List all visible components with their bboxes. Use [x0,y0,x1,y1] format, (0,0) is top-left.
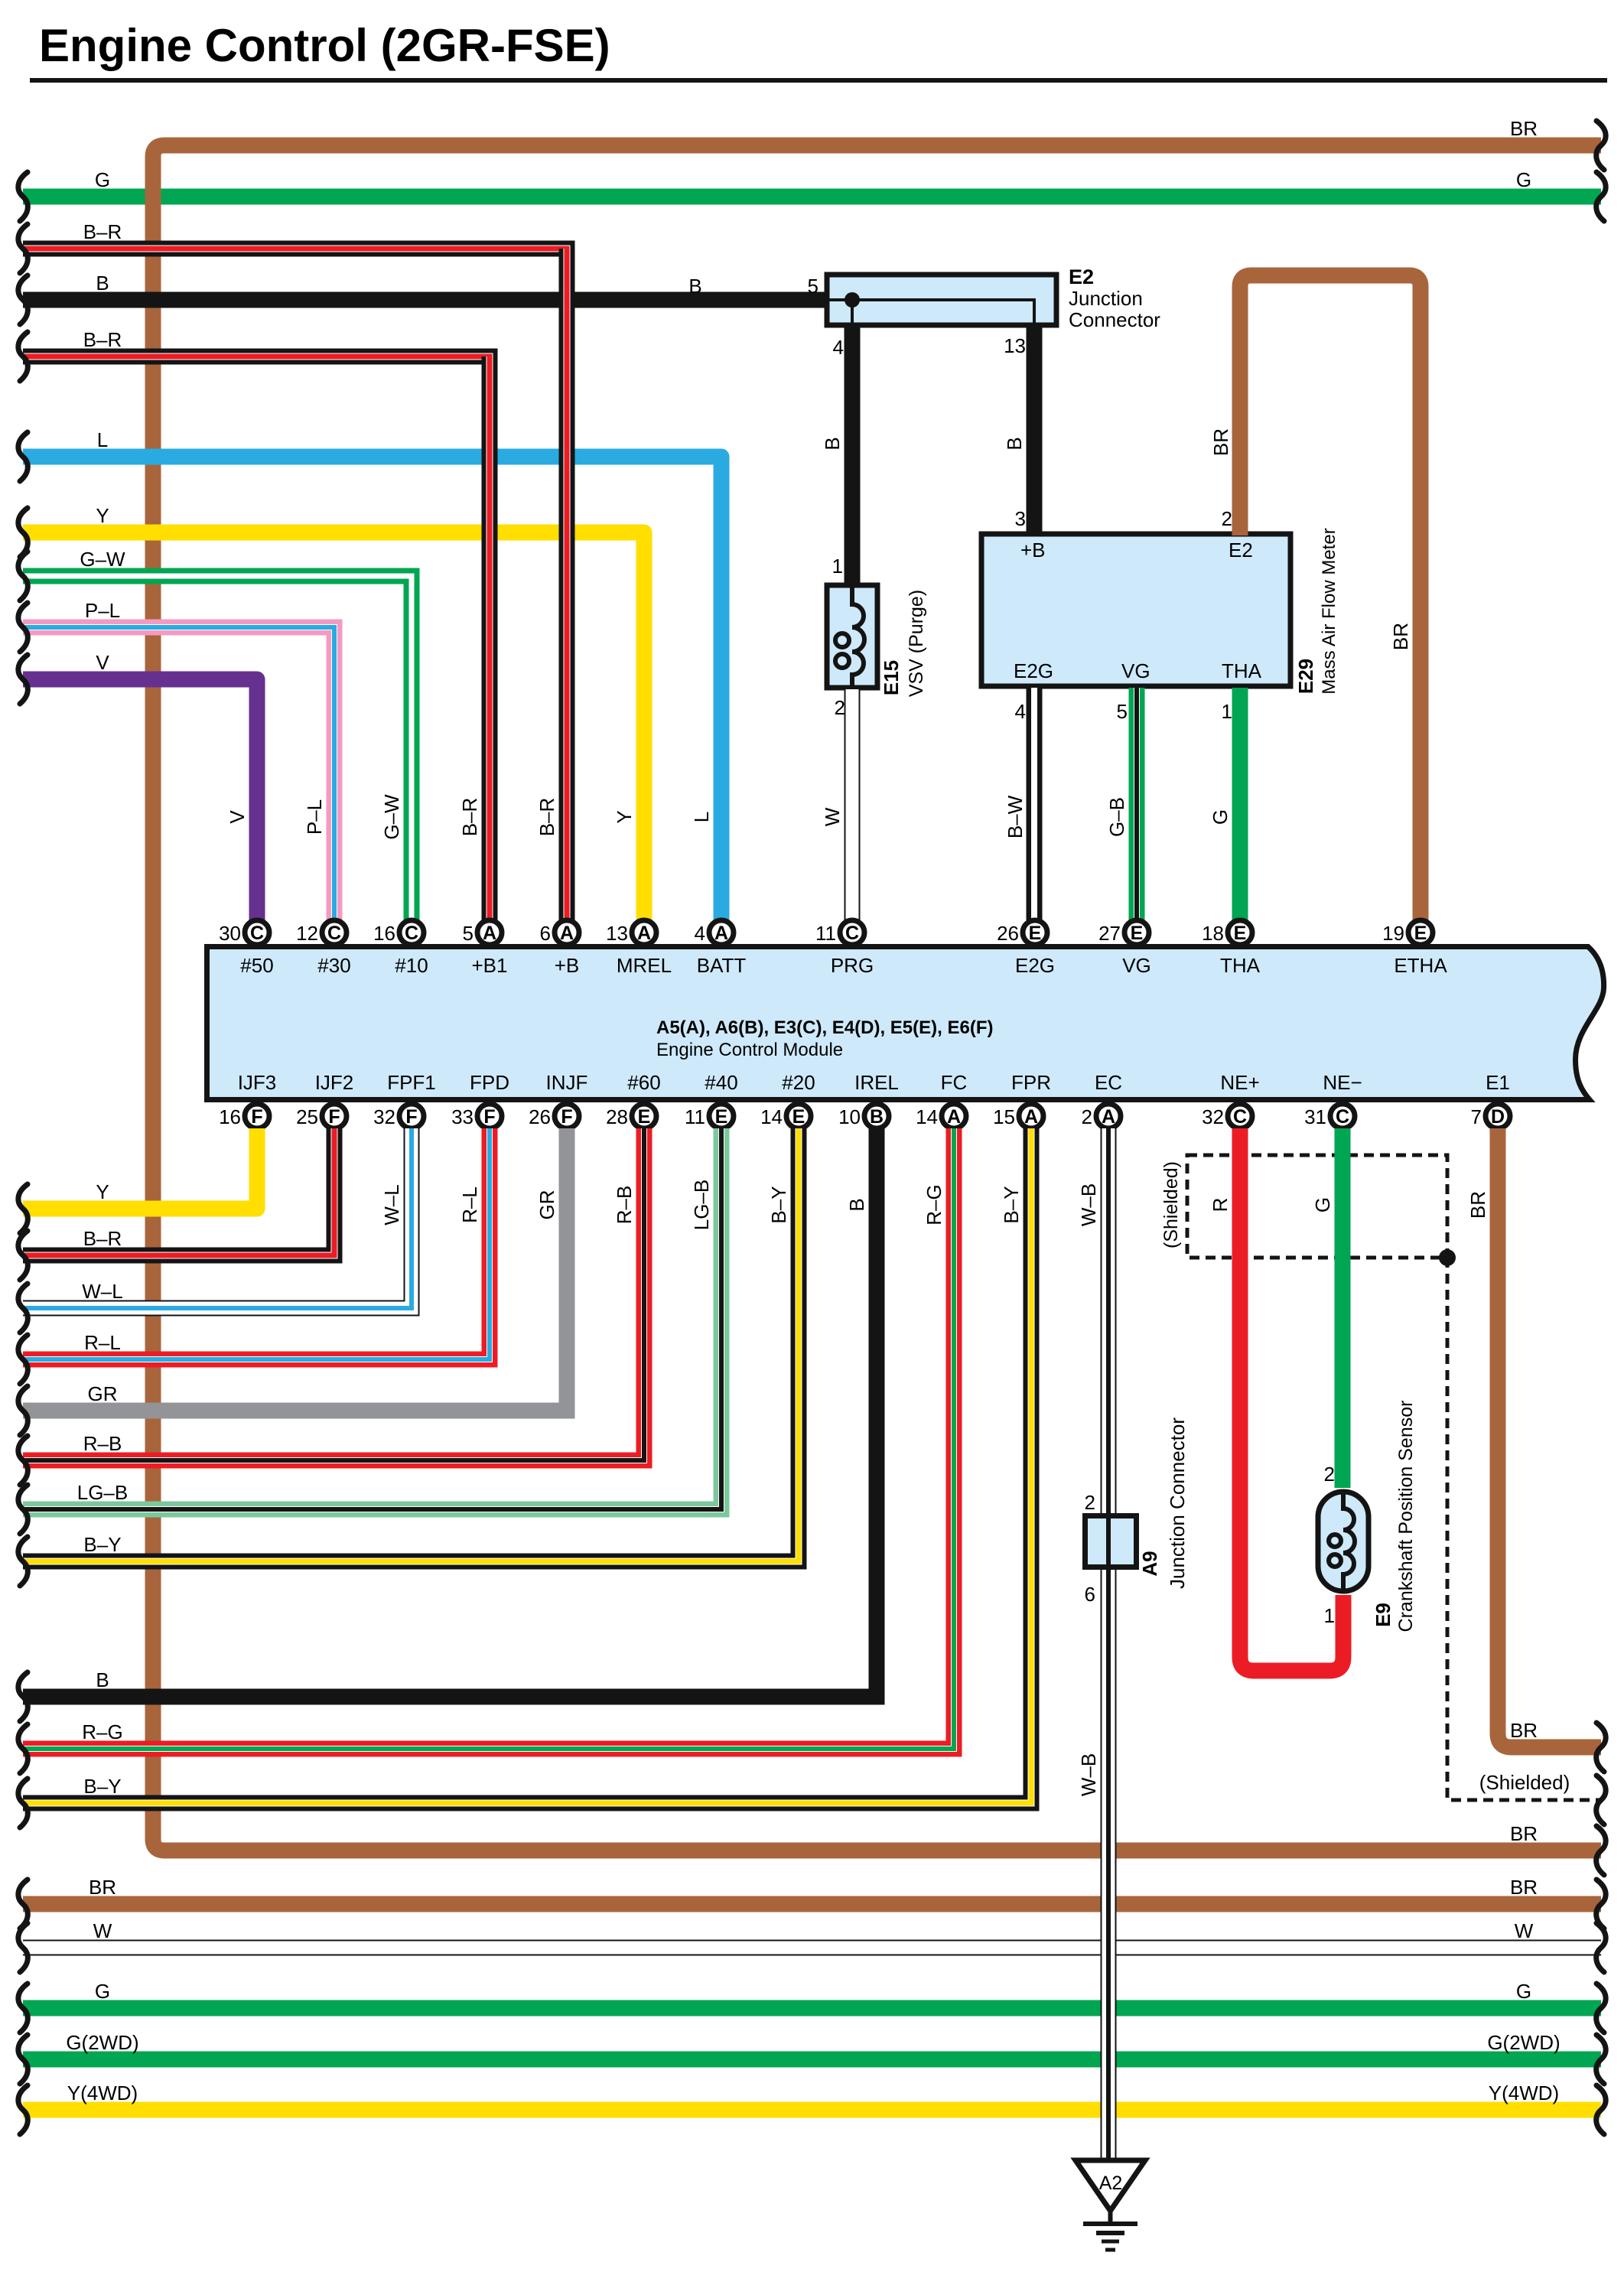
wire B-Y to ECM FPR [23,1128,1031,1803]
svg-text:2: 2 [1324,1463,1335,1486]
svg-text:B: B [96,1668,109,1691]
pin 33 F FPD (bottom) [451,1071,509,1128]
svg-text:E: E [1029,923,1042,944]
svg-text:NE−: NE− [1323,1071,1362,1094]
svg-text:V: V [226,810,249,824]
svg-text:BR: BR [1209,428,1232,456]
svg-text:V: V [96,651,109,674]
svg-text:G(2WD): G(2WD) [1487,2031,1560,2054]
shield junction dot [1439,1249,1456,1266]
svg-text:R: R [1209,1198,1232,1212]
svg-text:F: F [251,1106,262,1128]
svg-text:13: 13 [1004,334,1026,357]
svg-text:FPF1: FPF1 [387,1071,436,1094]
wire Y to ECM MREL [23,532,644,920]
svg-text:1: 1 [1324,1604,1335,1627]
wire B-R to ECM +B [23,249,567,920]
svg-text:11: 11 [815,922,836,945]
wire R-G to ECM FC [23,1128,954,1749]
svg-text:Y(4WD): Y(4WD) [1489,2082,1559,2104]
svg-text:Engine Control Module: Engine Control Module [656,1040,843,1060]
wire break braces left [18,172,28,2134]
svg-text:4: 4 [695,922,705,945]
svg-text:16: 16 [373,922,395,945]
svg-text:VG: VG [1122,954,1151,977]
svg-text:F: F [328,1106,340,1128]
svg-text:A: A [637,923,651,944]
shield dashed box (NE+/NE-) [1187,1155,1599,1800]
svg-text:26: 26 [997,922,1019,945]
wire BR main (top + left vertical + bottom) [153,145,1601,1850]
svg-text:GR: GR [535,1190,558,1220]
svg-text:B–R: B–R [83,1227,122,1250]
svg-text:VSV (Purge): VSV (Purge) [906,590,927,697]
pin 28 E #60 (bottom) [606,1071,661,1128]
svg-text:W: W [93,1919,112,1942]
svg-text:R–G: R–G [82,1720,122,1743]
svg-text:R–B: R–B [613,1186,636,1225]
svg-text:Y: Y [613,810,636,823]
svg-text:F: F [483,1106,495,1128]
svg-text:B–R: B–R [83,328,122,351]
svg-text:PRG: PRG [831,954,874,977]
svg-text:A2: A2 [1099,2173,1123,2194]
svg-text:R–L: R–L [84,1331,121,1354]
svg-text:G: G [95,1980,110,2003]
svg-text:B–R: B–R [535,798,558,837]
svg-text:A: A [1024,1106,1038,1128]
wire W-B from ECM EC to ground [1101,1128,1117,2160]
svg-text:32: 32 [373,1105,395,1128]
wire B-W from MAF to ECM E2G [1027,688,1043,920]
svg-text:B: B [845,1198,868,1211]
pin 16 F IJF3 (bottom) [219,1071,276,1128]
svg-text:B: B [870,1106,884,1128]
label E2 Junction Connector [1069,265,1160,331]
svg-text:G–W: G–W [80,548,125,571]
svg-text:33: 33 [451,1105,474,1128]
svg-text:C: C [1233,1106,1247,1128]
svg-text:14: 14 [760,1105,783,1128]
svg-text:W–L: W–L [380,1184,403,1225]
pin 6 A +B (top) [540,920,580,977]
svg-text:Connector: Connector [1069,308,1160,331]
svg-text:27: 27 [1098,922,1121,945]
svg-text:E: E [1234,923,1247,944]
svg-text:G: G [1311,1197,1334,1212]
svg-text:15: 15 [993,1105,1015,1128]
svg-text:E: E [1131,923,1144,944]
svg-text:Y: Y [96,1180,109,1203]
svg-text:12: 12 [296,922,318,945]
svg-text:NE+: NE+ [1220,1071,1259,1094]
svg-text:3: 3 [1015,507,1026,530]
svg-text:B–Y: B–Y [83,1775,121,1798]
svg-text:#60: #60 [627,1071,660,1094]
wire B-R vertical (+B) [559,249,575,920]
wire G bottom [23,2000,1601,2016]
svg-text:BR: BR [1510,117,1538,140]
pin 12 C #30 (top) [296,920,351,977]
svg-text:L: L [690,812,713,822]
svg-text:#10: #10 [395,954,428,977]
svg-text:THA: THA [1222,659,1262,682]
svg-text:+B1: +B1 [472,954,508,977]
svg-text:E29: E29 [1294,659,1317,694]
wire BR bottom [23,1896,1601,1912]
svg-text:BR: BR [1466,1191,1489,1219]
svg-text:2: 2 [835,696,845,719]
svg-text:W: W [1515,1919,1534,1942]
wire L to ECM BATT [23,457,721,920]
svg-text:#50: #50 [240,954,273,977]
wire B to E2 junction [23,292,827,308]
wire G-B from MAF to ECM VG [1129,688,1145,920]
svg-text:W–B: W–B [1077,1753,1100,1796]
svg-text:25: 25 [296,1105,318,1128]
svg-text:Junction: Junction [1069,287,1143,310]
svg-text:4: 4 [833,336,844,359]
svg-text:5: 5 [808,275,819,298]
svg-text:LG–B: LG–B [77,1481,129,1504]
wire B-R to ECM IJF2 [23,1128,334,1255]
svg-text:BR: BR [1389,623,1412,650]
svg-text:(Shielded): (Shielded) [1479,1771,1570,1794]
component E15 VSV (Purge) [827,585,877,688]
svg-text:B–Y: B–Y [767,1186,790,1223]
pin 19 E ETHA (top) [1382,920,1447,977]
svg-text:R–L: R–L [458,1186,481,1223]
svg-text:B: B [96,272,109,295]
wire BR from ECM E1 [1498,1128,1601,1747]
svg-text:FC: FC [941,1071,968,1094]
svg-text:VG: VG [1121,659,1150,682]
svg-text:D: D [1491,1106,1505,1128]
svg-text:6: 6 [1085,1583,1095,1606]
svg-text:30: 30 [219,922,241,945]
svg-text:26: 26 [529,1105,551,1128]
svg-text:ETHA: ETHA [1394,954,1447,977]
svg-text:5: 5 [463,922,474,945]
pin 15 A FPR (bottom) [993,1071,1051,1128]
svg-text:+B: +B [555,954,580,977]
svg-text:THA: THA [1220,954,1261,977]
ECM Engine Control Module box [207,947,1604,1100]
svg-text:19: 19 [1382,922,1404,945]
svg-text:14: 14 [916,1105,938,1128]
pin 32 C NE+ (bottom) [1202,1071,1260,1128]
svg-text:(Shielded): (Shielded) [1160,1161,1182,1248]
wire B to ECM IREL [23,1128,877,1697]
svg-text:B–R: B–R [83,220,122,243]
svg-text:16: 16 [219,1105,241,1128]
wire B-Y to ECM #20 [23,1128,799,1561]
pin 7 D E1 (bottom) [1471,1071,1510,1128]
svg-text:10: 10 [838,1105,861,1128]
svg-text:E2: E2 [1069,265,1094,288]
svg-text:BR: BR [1510,1876,1538,1899]
component E9 Crankshaft Position Sensor [1318,1492,1369,1591]
svg-text:IJF2: IJF2 [315,1071,354,1094]
svg-text:FPD: FPD [470,1071,509,1094]
svg-text:#20: #20 [782,1071,815,1094]
svg-text:INJF: INJF [546,1071,588,1094]
wire B-R vertical (+B1) [482,356,498,920]
wire G (top) [23,189,1601,205]
svg-text:4: 4 [1015,700,1026,723]
pin 11 C PRG (top) [815,920,874,977]
svg-text:E15: E15 [880,660,903,695]
svg-text:G–W: G–W [380,794,403,840]
svg-text:B–Y: B–Y [1000,1186,1023,1223]
svg-text:1: 1 [1222,700,1232,723]
svg-text:BATT: BATT [697,954,747,977]
pin 14 E #20 (bottom) [760,1071,815,1128]
svg-text:Junction Connector: Junction Connector [1166,1418,1189,1589]
W-B center line through A9 [1106,1513,1111,1570]
svg-text:C: C [845,923,859,944]
svg-text:6: 6 [540,922,551,945]
svg-text:C: C [327,923,341,944]
pin 27 E VG (top) [1098,920,1151,977]
component E29 Mass Air Flow Meter [981,534,1290,686]
wire break braces right [1596,121,1606,2134]
wire V to ECM #50 [23,679,257,920]
svg-text:B–W: B–W [1004,795,1027,838]
svg-text:A: A [714,923,728,944]
svg-text:IJF3: IJF3 [238,1071,277,1094]
svg-text:P–L: P–L [303,799,326,835]
pin 31 C NE− (bottom) [1304,1071,1362,1128]
svg-text:P–L: P–L [85,599,120,622]
svg-text:1: 1 [832,555,843,578]
svg-text:B: B [821,437,844,450]
svg-text:A: A [560,923,574,944]
svg-text:R–G: R–G [923,1184,945,1225]
wire R NE+ to E9 pin1 [1240,1128,1343,1671]
pin 26 E E2G (top) [997,920,1055,977]
svg-text:B–R: B–R [458,798,481,837]
wire R-L to ECM FPD [23,1128,490,1359]
svg-text:2: 2 [1222,507,1232,530]
svg-text:#40: #40 [705,1071,737,1094]
pin 25 F IJF2 (bottom) [296,1071,353,1128]
wire LG-B to ECM #40 [23,1128,721,1509]
pin 16 C #10 (top) [373,920,428,977]
wire B-R to ECM +B1 [23,356,490,920]
svg-text:GR: GR [88,1382,118,1405]
pin 11 E #40 (bottom) [685,1071,738,1128]
svg-text:E2: E2 [1229,539,1253,561]
svg-text:32: 32 [1202,1105,1224,1128]
pin 18 E THA (top) [1202,920,1261,977]
wire G from MAF to ECM THA [1232,688,1248,920]
svg-text:E9: E9 [1372,1603,1395,1627]
svg-text:5: 5 [1117,700,1128,723]
svg-text:C: C [1336,1106,1349,1128]
svg-text:7: 7 [1471,1105,1482,1128]
svg-text:W–B: W–B [1077,1183,1100,1226]
svg-text:E2G: E2G [1015,954,1055,977]
junction connector A9 [1085,1516,1137,1567]
pin 30 C #50 (top) [219,920,274,977]
wire Y to ECM IJF3 [23,1128,257,1209]
svg-text:G: G [95,168,110,191]
svg-text:13: 13 [606,922,628,945]
svg-text:#30: #30 [317,954,350,977]
wire W from E15 to ECM PRG [845,689,861,920]
pin 26 F INJF (bottom) [529,1071,587,1128]
svg-text:G: G [1516,168,1531,191]
svg-text:B: B [1003,437,1026,450]
pin 4 A BATT (top) [695,920,747,977]
wire Y(4WD) bottom [23,2102,1601,2118]
svg-text:Y: Y [96,504,109,527]
svg-text:G: G [1209,809,1232,825]
svg-text:A9: A9 [1138,1551,1161,1576]
wire G(2WD) bottom [23,2052,1601,2068]
svg-text:11: 11 [685,1105,705,1128]
svg-text:18: 18 [1202,922,1224,945]
svg-text:BR: BR [1510,1822,1538,1845]
svg-text:B–Y: B–Y [83,1533,121,1556]
wire W bottom [23,1940,1601,1956]
pin 13 A MREL (top) [606,920,672,977]
svg-text:C: C [405,923,418,944]
svg-text:G(2WD): G(2WD) [66,2031,138,2054]
svg-text:E: E [715,1106,728,1128]
svg-text:A: A [483,923,496,944]
svg-text:E: E [792,1106,805,1128]
pin 10 B IREL (bottom) [838,1071,899,1128]
svg-text:E1: E1 [1486,1071,1510,1094]
svg-text:W–L: W–L [82,1280,122,1303]
pin 14 A FC (bottom) [916,1071,967,1128]
svg-text:G: G [1516,1980,1531,2003]
svg-text:E: E [638,1106,651,1128]
wire R-B to ECM #60 [23,1128,644,1460]
svg-text:28: 28 [606,1105,628,1128]
ECM title text [656,1017,993,1060]
ground A2 [1076,2160,1145,2250]
svg-text:BR: BR [1510,1719,1538,1742]
svg-text:MREL: MREL [617,954,672,977]
svg-text:BR: BR [89,1876,116,1899]
svg-text:IREL: IREL [854,1071,899,1094]
wire B from E2 pin13 to MAF [1027,326,1043,535]
wire W-L to ECM FPF1 [23,1128,412,1308]
svg-text:A: A [1102,1106,1115,1128]
svg-text:LG–B: LG–B [690,1180,713,1231]
svg-text:C: C [250,923,264,944]
pin 5 A +B1 (top) [463,920,508,977]
wire G-W to ECM #10 [23,576,412,920]
pin 32 F FPF1 (bottom) [373,1071,436,1128]
svg-text:R–B: R–B [83,1432,122,1455]
svg-text:FPR: FPR [1011,1071,1051,1094]
svg-text:Mass Air Flow Meter: Mass Air Flow Meter [1319,528,1339,694]
svg-text:W: W [821,807,844,826]
svg-text:L: L [97,428,108,451]
svg-text:B: B [688,275,701,298]
wire G NE- to E9 pin2 [1335,1128,1351,1488]
svg-text:E: E [1414,923,1427,944]
svg-text:F: F [405,1106,417,1128]
svg-text:E2G: E2G [1014,659,1053,682]
junction connector E2 [827,275,1056,325]
svg-text:+B: +B [1020,539,1046,561]
svg-text:Crankshaft Position Sensor: Crankshaft Position Sensor [1395,1401,1417,1632]
svg-text:2: 2 [1082,1105,1092,1128]
svg-text:A: A [947,1106,961,1128]
wire BR from MAF E2 to ECM ETHA [1240,275,1421,920]
wire P-L to ECM #30 [23,627,334,920]
svg-text:EC: EC [1095,1071,1122,1094]
svg-text:Engine Control (2GR-FSE): Engine Control (2GR-FSE) [39,20,610,71]
svg-text:A5(A), A6(B), E3(C), E4(D), E5: A5(A), A6(B), E3(C), E4(D), E5(E), E6(F) [656,1017,993,1038]
svg-text:2: 2 [1085,1491,1095,1514]
svg-text:Y(4WD): Y(4WD) [67,2082,138,2104]
wire B from E2 pin4 to E15 [845,326,861,588]
svg-text:G–B: G–B [1105,797,1128,837]
MAF pin labels [1014,539,1262,682]
wire GR to ECM INJF [23,1128,567,1411]
pin 2 A EC (bottom) [1082,1071,1123,1128]
svg-text:F: F [561,1106,572,1128]
svg-text:31: 31 [1304,1105,1326,1128]
